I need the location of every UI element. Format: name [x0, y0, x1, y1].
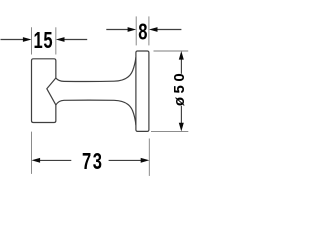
hook knob bar (side view, left block)	[32, 59, 56, 123]
dim 15: extension line left	[31, 27, 33, 54]
svg-text:8: 8	[138, 20, 147, 45]
dim 73: extension line left	[31, 132, 33, 174]
dim 8: arrowhead left	[128, 27, 137, 32]
dim 73: arrowhead right	[141, 158, 150, 163]
dim 73: dimension line left segment	[38, 159, 71, 161]
dim 15: arrowhead left	[23, 37, 32, 42]
cone-bar intersection V notch	[47, 78, 56, 105]
stem lower profile	[56, 100, 136, 125]
dim dia50: arrowhead down	[179, 123, 184, 132]
dim 73: dimension line right segment	[109, 159, 143, 161]
dim 15: leader line left	[1, 39, 26, 41]
dim 15: extension line right	[55, 27, 57, 54]
svg-text:15: 15	[33, 28, 53, 53]
dim 15: leader line right	[62, 39, 87, 41]
dim dia50: arrowhead up	[179, 51, 184, 60]
dim 15: arrowhead right	[56, 37, 65, 42]
dim 8: extension line right	[148, 16, 150, 45]
dim 73: arrowhead left	[32, 158, 41, 163]
dim dia50: dimension line upper segment	[180, 57, 182, 74]
svg-text:ø50: ø50	[171, 70, 188, 106]
dim 73: extension line right	[148, 139, 150, 176]
dim dia50: extension line top	[154, 50, 189, 52]
dim 8: arrowhead right	[149, 27, 158, 32]
wall plate (side view, 8 x dia50)	[136, 51, 149, 131]
svg-text:73: 73	[82, 149, 103, 174]
dim dia50: dimension line lower segment	[180, 106, 182, 126]
dim 8: leader line left	[106, 29, 130, 31]
dim dia50: extension line bottom	[151, 130, 188, 132]
stem upper profile	[56, 57, 136, 81]
dim 8: leader line right	[155, 29, 181, 31]
dim 8: extension line left	[135, 16, 137, 45]
